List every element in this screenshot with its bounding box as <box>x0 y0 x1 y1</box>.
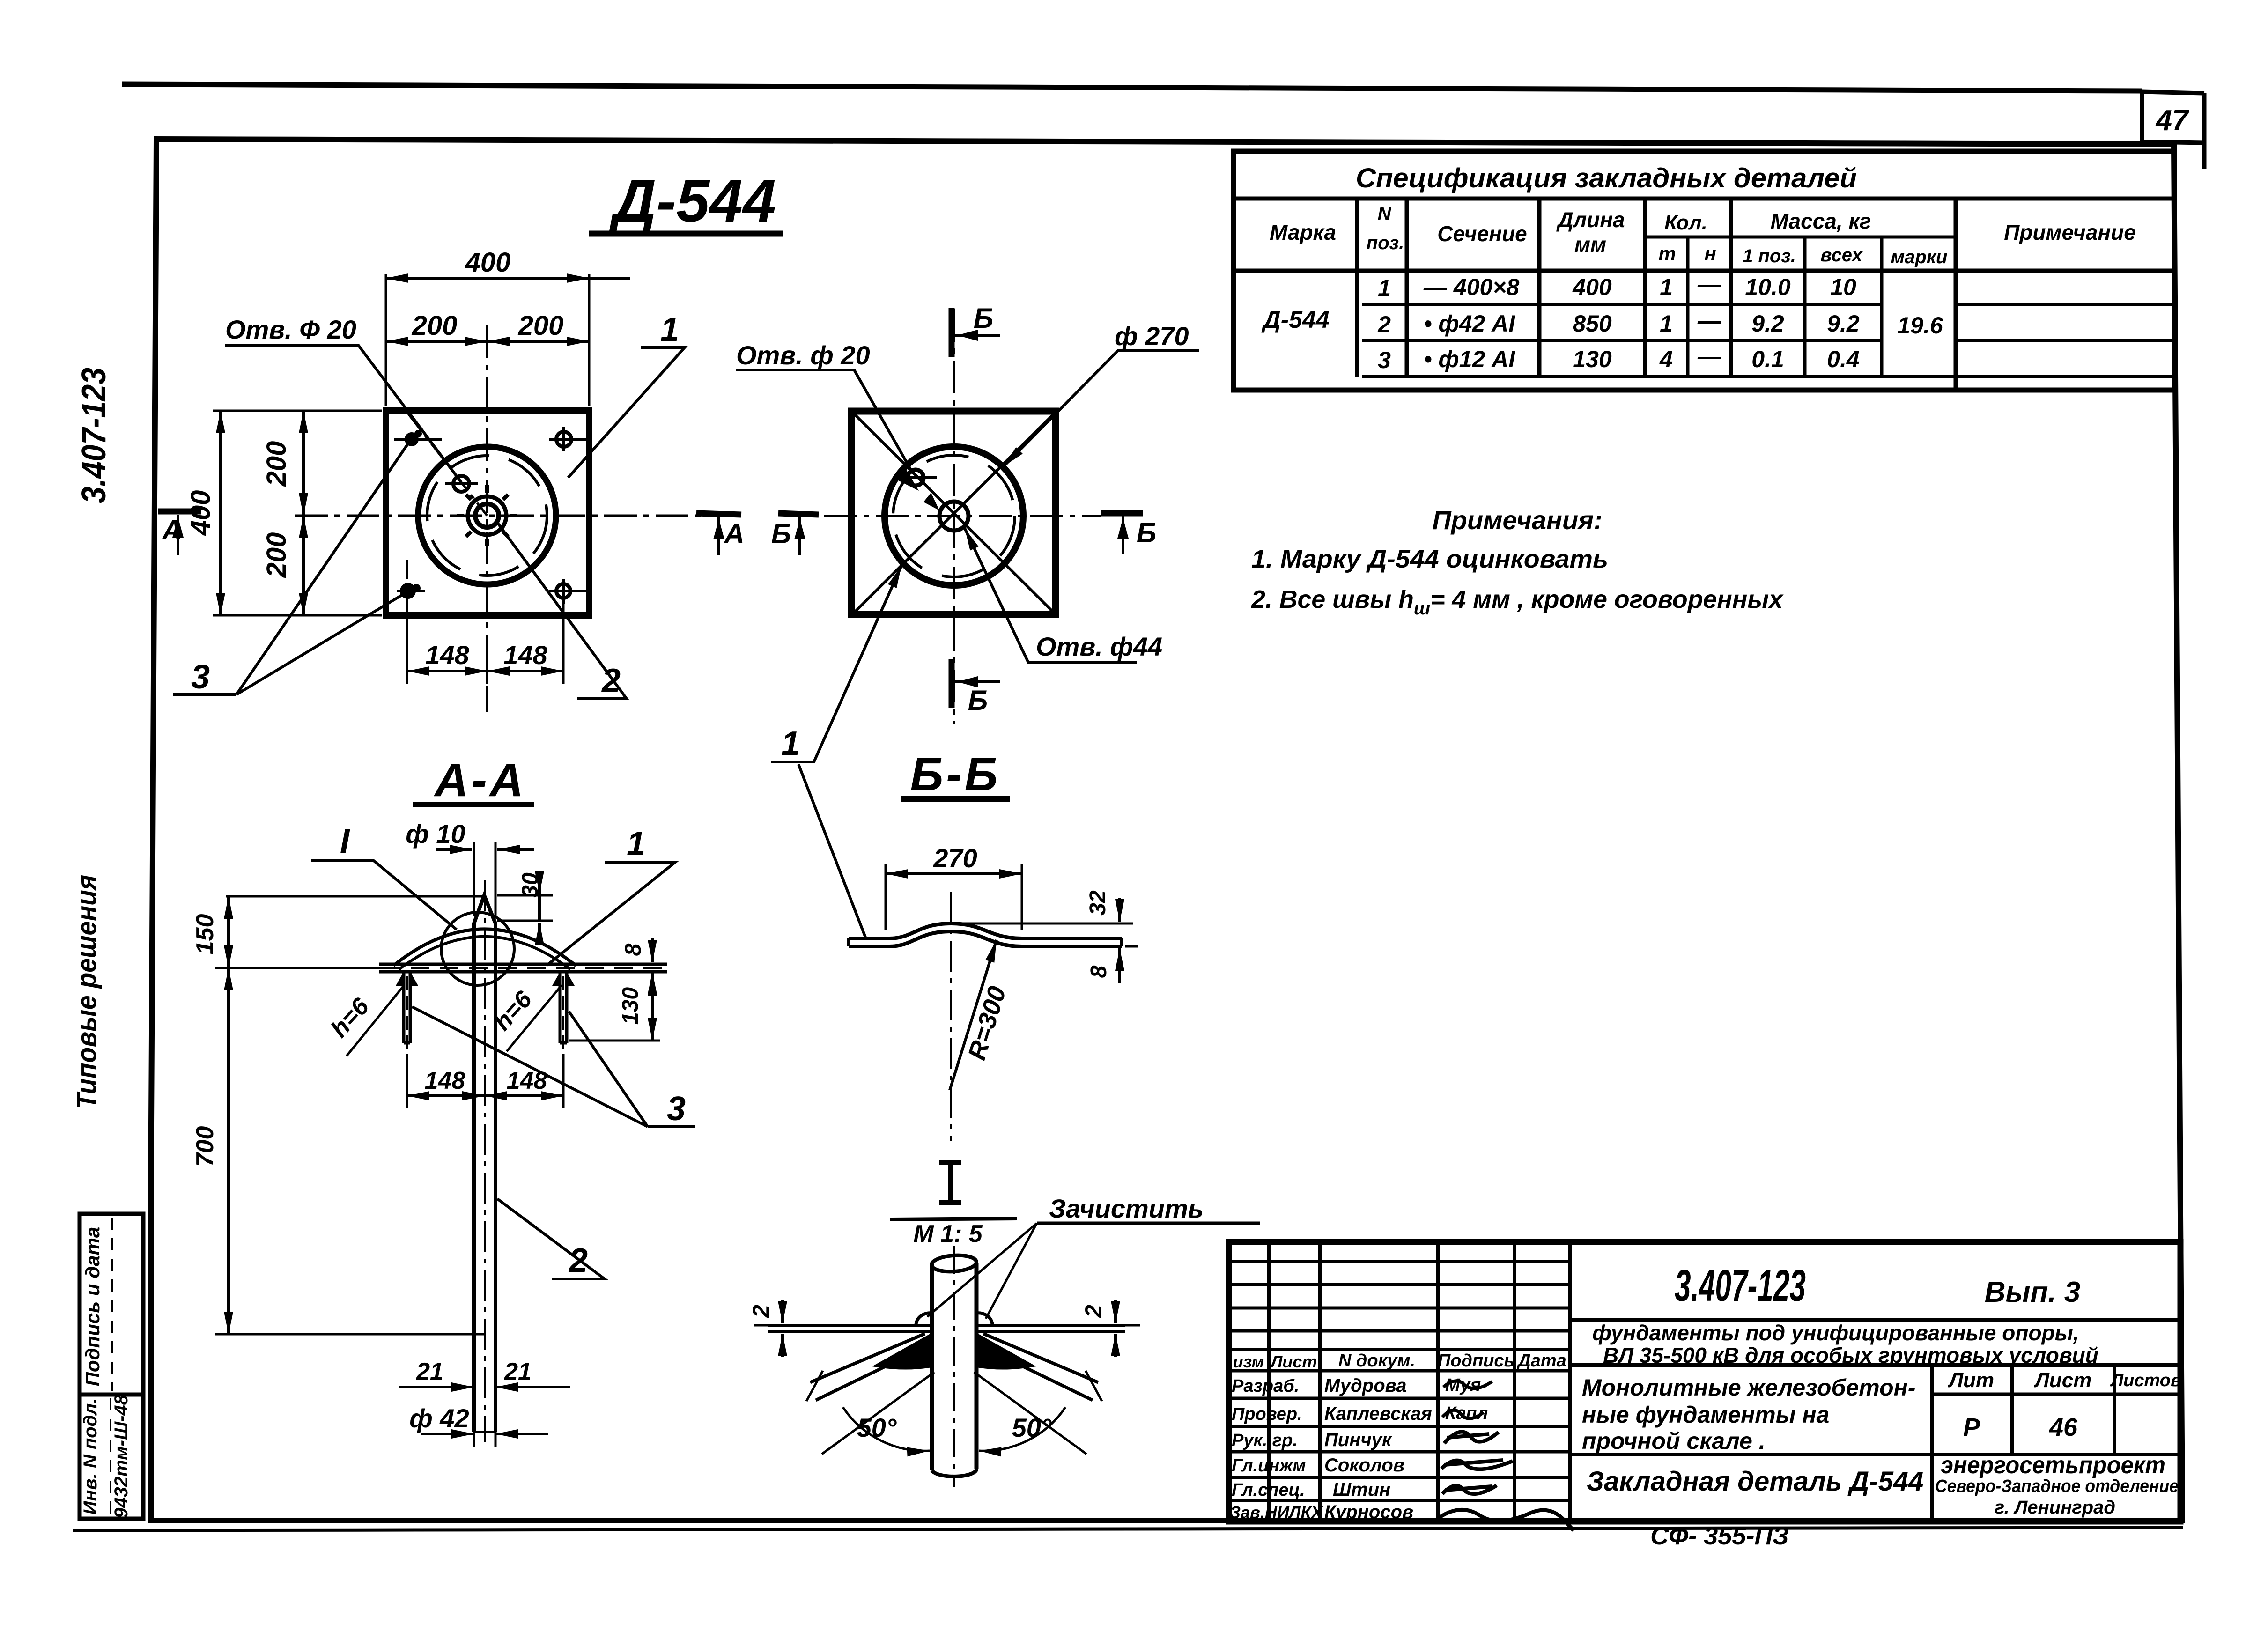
svg-text:Дата: Дата <box>1516 1351 1566 1371</box>
bars (pos 3) <box>396 972 575 1049</box>
svg-text:Отв. ф 20: Отв. ф 20 <box>736 340 870 370</box>
callout 1 (view1) <box>568 311 685 478</box>
centerline Б-Б <box>950 892 952 1141</box>
table horizontal lines <box>1234 197 2174 201</box>
svg-text:Провер.: Провер. <box>1232 1404 1302 1424</box>
svg-text:0.1: 0.1 <box>1751 346 1784 372</box>
svg-text:0.4: 0.4 <box>1827 346 1860 372</box>
svg-text:Капл: Капл <box>1445 1403 1488 1423</box>
svg-text:130: 130 <box>618 987 643 1025</box>
svg-text:— 400×8: — 400×8 <box>1423 274 1520 300</box>
left rows horizontals <box>1229 1262 1570 1500</box>
callout 3 (section) <box>412 1007 695 1128</box>
centerline vertical view1 <box>486 325 488 712</box>
svg-text:М 1: 5: М 1: 5 <box>913 1220 983 1248</box>
svg-text:Мудрова: Мудрова <box>1324 1375 1407 1396</box>
svg-text:1: 1 <box>660 311 679 348</box>
svg-text:Гл.спец.: Гл.спец. <box>1232 1480 1305 1500</box>
svg-text:А: А <box>161 514 182 546</box>
pipe circle F270 (solid) <box>418 447 556 584</box>
svg-text:1: 1 <box>781 725 800 762</box>
section mark Б top of view2 <box>952 303 1000 357</box>
svg-text:30: 30 <box>518 872 543 898</box>
svg-text:Листов: Листов <box>2110 1371 2181 1390</box>
svg-text:Подпись и дата: Подпись и дата <box>81 1227 103 1386</box>
svg-text:Б: Б <box>1137 517 1156 548</box>
svg-text:Б-Б: Б-Б <box>910 748 1001 801</box>
svg-text:Спецификация закладных деталей: Спецификация закладных деталей <box>1356 163 1857 193</box>
center hole F44 view2 <box>939 502 968 531</box>
dim F42 bottom <box>409 1400 548 1447</box>
weld fillets below plate (black) <box>872 1333 932 1370</box>
svg-text:21: 21 <box>416 1358 443 1385</box>
svg-text:изм: изм <box>1233 1352 1264 1371</box>
detail mark I <box>890 1162 1017 1248</box>
hole F20 (view1) <box>453 476 469 492</box>
svg-text:21: 21 <box>504 1358 532 1385</box>
svg-text:Кол.: Кол. <box>1664 211 1707 234</box>
50 degree angle right <box>974 1372 1086 1454</box>
svg-text:Отв. Ф 20: Отв. Ф 20 <box>225 315 356 344</box>
R=300 radius arrow <box>950 940 1012 1090</box>
left columns verticals <box>1269 1242 1570 1521</box>
dim 30 (cap) right <box>497 872 553 944</box>
plate (detail I) <box>768 1325 1125 1332</box>
svg-text:Курносов: Курносов <box>1324 1502 1413 1522</box>
svg-text:А-А: А-А <box>433 754 526 806</box>
svg-text:Инв. N подл.: Инв. N подл. <box>80 1398 101 1515</box>
svg-text:Лист: Лист <box>2034 1369 2092 1392</box>
section mark Б right of view2 <box>1101 513 1156 554</box>
weld size h=6 right <box>488 985 562 1051</box>
svg-text:Гл.инжм: Гл.инжм <box>1232 1456 1306 1476</box>
label Отв Ф20 (view2) <box>736 340 913 474</box>
dim 270 <box>886 843 1022 930</box>
svg-text:47: 47 <box>2155 104 2189 137</box>
svg-text:Зачистить: Зачистить <box>1049 1194 1204 1223</box>
dim 400 left (view1) <box>185 411 382 615</box>
svg-text:9.2: 9.2 <box>1751 310 1784 337</box>
title underline <box>589 231 783 237</box>
svg-text:130: 130 <box>1573 346 1612 372</box>
callout 3 (view1) <box>173 441 410 696</box>
svg-text:19.6: 19.6 <box>1897 312 1943 339</box>
svg-text:Примечание: Примечание <box>2004 220 2136 244</box>
svg-text:Примечания:: Примечания: <box>1432 505 1602 535</box>
circle F270 view2 <box>885 447 1023 585</box>
callout I (detail mark) <box>311 822 457 930</box>
section mark A right <box>696 513 745 555</box>
svg-text:г. Ленинград: г. Ленинград <box>1995 1497 2115 1518</box>
svg-text:8: 8 <box>621 943 646 956</box>
svg-text:200: 200 <box>261 441 292 487</box>
table outer border <box>1234 151 2174 390</box>
centerline horizontal view1 <box>295 515 702 517</box>
title block outer <box>1229 1242 2180 1521</box>
svg-text:Северо-Западное отделение: Северо-Западное отделение <box>1935 1477 2179 1496</box>
svg-text:мм: мм <box>1574 232 1606 257</box>
svg-text:148: 148 <box>425 640 469 670</box>
svg-text:ф 270: ф 270 <box>1115 321 1189 351</box>
callout 1 (view2) <box>771 566 901 762</box>
svg-text:50°: 50° <box>1012 1413 1052 1442</box>
svg-text:700: 700 <box>192 1126 219 1167</box>
svg-text:поз.: поз. <box>1367 233 1404 253</box>
svg-text:2: 2 <box>1377 311 1391 338</box>
label Ф270 (view2) <box>1004 321 1199 466</box>
svg-text:• ф12 АI: • ф12 АI <box>1424 346 1515 372</box>
dim 700 left <box>192 968 484 1334</box>
center hole F44 with weld teeth <box>457 485 517 546</box>
svg-text:Вып. 3: Вып. 3 <box>1985 1276 2081 1308</box>
plate square view2 <box>851 411 1056 614</box>
svg-text:Рук. гр.: Рук. гр. <box>1232 1431 1298 1450</box>
bottom second rule <box>73 1528 2183 1530</box>
dim 130 right (bar) <box>569 972 660 1041</box>
lit/list/listov <box>1932 1365 2114 1455</box>
svg-text:9.2: 9.2 <box>1827 310 1860 337</box>
svg-text:150: 150 <box>192 914 219 955</box>
svg-text:Лист: Лист <box>1270 1352 1317 1371</box>
svg-text:Каплевская: Каплевская <box>1324 1403 1432 1424</box>
left margin stamp box <box>80 1214 143 1519</box>
section mark A left <box>158 511 201 555</box>
svg-text:3.407-123: 3.407-123 <box>1675 1261 1806 1311</box>
svg-text:N докум.: N докум. <box>1338 1351 1415 1371</box>
svg-text:8: 8 <box>1086 965 1111 978</box>
svg-text:270: 270 <box>933 843 977 873</box>
svg-text:10: 10 <box>1830 274 1856 300</box>
svg-text:Б: Б <box>974 303 993 334</box>
corner bar marks (pos.3) <box>394 427 591 623</box>
svg-text:Лит: Лит <box>1948 1369 1994 1392</box>
svg-text:3: 3 <box>667 1090 686 1128</box>
svg-text:2: 2 <box>1080 1305 1107 1318</box>
svg-text:Марка: Марка <box>1270 220 1336 244</box>
dim 32 right <box>957 890 1133 923</box>
svg-text:50°: 50° <box>857 1413 897 1442</box>
dim 8 right (Б-Б) <box>1086 946 1138 983</box>
svg-text:Зав.НИЛКХ: Зав.НИЛКХ <box>1230 1503 1323 1522</box>
svg-text:Соколов: Соколов <box>1324 1455 1404 1476</box>
page number box 47 <box>2142 92 2204 169</box>
svg-text:I: I <box>340 822 350 861</box>
svg-text:прочной скале .: прочной скале . <box>1582 1428 1766 1454</box>
dashed circle <box>427 456 547 576</box>
pipe (detail I) <box>931 1246 977 1487</box>
dim 148/148 (section) <box>407 1054 563 1108</box>
svg-text:200: 200 <box>412 310 458 341</box>
svg-text:850: 850 <box>1573 310 1612 337</box>
dim 200/200 top <box>386 310 589 356</box>
svg-text:Отв. ф44: Отв. ф44 <box>1036 632 1162 661</box>
svg-text:3.407-123: 3.407-123 <box>75 368 113 503</box>
svg-text:46: 46 <box>2049 1413 2078 1441</box>
svg-text:Монолитные железобетон-: Монолитные железобетон- <box>1582 1374 1915 1401</box>
svg-text:1: 1 <box>1660 274 1673 300</box>
callout 1 (section A-A) <box>547 825 675 965</box>
diagonal centerlines view2 <box>854 414 1054 613</box>
svg-text:Длина: Длина <box>1556 207 1625 232</box>
plate 1 outline (square 400x400) <box>386 411 589 615</box>
svg-text:148: 148 <box>425 1067 465 1094</box>
svg-text:Подпись: Подпись <box>1438 1351 1514 1371</box>
centerline vertical view2 <box>953 309 955 724</box>
cut plate wings <box>806 1334 1102 1401</box>
svg-text:400: 400 <box>465 247 511 278</box>
svg-text:Б: Б <box>968 685 988 716</box>
dim 150 left <box>192 896 482 968</box>
svg-text:4: 4 <box>1659 346 1673 372</box>
svg-text:Муя-: Муя- <box>1445 1375 1487 1395</box>
dim 2 left (detail I) <box>748 1300 783 1357</box>
table vertical lines <box>1355 199 1359 377</box>
svg-text:Д-544: Д-544 <box>608 168 776 235</box>
detail circle I <box>441 912 514 985</box>
svg-text:Типовые решения: Типовые решения <box>72 875 102 1109</box>
svg-text:1 поз.: 1 поз. <box>1743 246 1796 266</box>
dim 148/148 bottom (view1) <box>407 602 563 684</box>
svg-text:m: m <box>1658 243 1676 265</box>
label Зачистить <box>927 1194 1260 1319</box>
dim 400 top <box>386 247 630 406</box>
svg-text:400: 400 <box>1572 274 1612 300</box>
label Отв Ф20 (view1) <box>225 315 461 482</box>
svg-text:энергосетьпроект: энергосетьпроект <box>1941 1452 2165 1479</box>
svg-text:• ф42 АI: • ф42 АI <box>1424 310 1515 337</box>
svg-text:всех: всех <box>1820 245 1863 266</box>
svg-text:Пинчук: Пинчук <box>1324 1430 1392 1450</box>
svg-text:2: 2 <box>748 1305 774 1318</box>
curved plate (pos 1) profile <box>849 923 1122 946</box>
curved bump silhouette <box>393 929 576 966</box>
svg-text:—: — <box>1697 308 1721 334</box>
svg-text:200: 200 <box>261 532 292 578</box>
svg-text:1. Марку Д-544 оцинковать: 1. Марку Д-544 оцинковать <box>1251 545 1608 573</box>
svg-text:1: 1 <box>627 825 645 863</box>
hole F20 view2 <box>894 466 939 510</box>
centerline horizontal view2 <box>824 515 1101 517</box>
dim 200/200 left (view1) <box>261 411 303 615</box>
dim F10 top <box>406 819 534 916</box>
svg-text:Сечение: Сечение <box>1437 222 1527 246</box>
dashed circle view2 <box>893 455 1015 577</box>
svg-text:148: 148 <box>503 640 547 670</box>
callout 2 (view1) <box>497 523 627 700</box>
svg-text:1: 1 <box>1378 275 1391 301</box>
svg-text:Закладная деталь Д-544: Закладная деталь Д-544 <box>1587 1466 1923 1497</box>
svg-text:Р: Р <box>1963 1413 1980 1441</box>
svg-text:Штин: Штин <box>1333 1479 1390 1500</box>
section mark Б left of view2 <box>771 513 819 555</box>
svg-text:Масса, кг: Масса, кг <box>1771 209 1871 233</box>
svg-text:3: 3 <box>191 658 210 696</box>
svg-text:Разраб.: Разраб. <box>1232 1376 1299 1396</box>
drawing frame <box>151 139 2182 1521</box>
svg-text:н: н <box>1704 243 1716 265</box>
svg-text:А: А <box>723 518 744 549</box>
callout 2 (section) <box>497 1199 605 1279</box>
dim 8 right (plate) <box>579 938 663 997</box>
svg-text:ф 10: ф 10 <box>406 819 465 849</box>
svg-text:9432тм-Ш-48: 9432тм-Ш-48 <box>111 1394 132 1518</box>
svg-text:фундаменты под унифицированн: фундаменты под унифицированные опоры, <box>1592 1321 2079 1345</box>
dim 2 right (detail I) <box>1080 1300 1140 1357</box>
svg-text:—: — <box>1697 271 1721 297</box>
label Отв Ф44 (view2) <box>965 528 1162 663</box>
diagonal centerline through F20 hole <box>408 414 487 516</box>
line under doc number <box>1570 1318 2180 1322</box>
plate (pos 1) in section <box>379 964 667 972</box>
dim 21/21 bottom <box>399 1358 570 1387</box>
pipe (pos 2) vertical <box>474 880 495 1442</box>
50 degree angle left <box>822 1372 934 1454</box>
svg-text:N: N <box>1378 204 1392 224</box>
leader from callout 1 to curved plate <box>798 764 866 938</box>
svg-text:ф 42: ф 42 <box>409 1403 469 1433</box>
svg-text:200: 200 <box>518 310 564 341</box>
svg-text:—: — <box>1697 343 1721 369</box>
svg-text:ные фундаменты на: ные фундаменты на <box>1582 1402 1829 1428</box>
svg-text:3: 3 <box>1378 347 1391 373</box>
svg-text:1: 1 <box>1660 310 1673 337</box>
top rule <box>122 84 2142 91</box>
section mark Б bottom of view2 <box>952 659 1000 716</box>
svg-text:марки: марки <box>1891 247 1948 267</box>
svg-text:Д-544: Д-544 <box>1261 306 1330 333</box>
svg-text:10.0: 10.0 <box>1745 274 1791 300</box>
weld size h=6 left <box>325 986 404 1056</box>
svg-text:Б: Б <box>771 518 791 549</box>
signatures (squiggles) <box>1443 1381 1492 1388</box>
svg-text:СФ- 355-ПЗ: СФ- 355-ПЗ <box>1650 1522 1789 1550</box>
weld beads above plate <box>916 1313 932 1325</box>
svg-text:32: 32 <box>1086 890 1110 916</box>
